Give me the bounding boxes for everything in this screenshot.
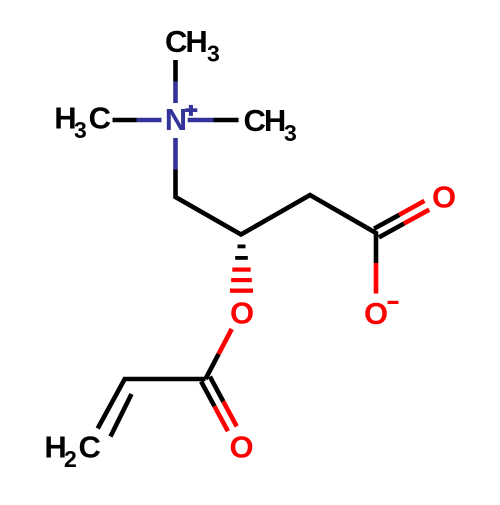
svg-text:O: O: [364, 296, 388, 331]
svg-text:CH: CH: [165, 24, 206, 59]
svg-text:N: N: [165, 102, 187, 137]
svg-text:CH: CH: [244, 103, 285, 138]
svg-text:3: 3: [74, 117, 87, 143]
svg-text:C: C: [89, 100, 111, 135]
svg-text:C: C: [79, 429, 101, 464]
svg-text:3: 3: [284, 120, 297, 146]
svg-text:2: 2: [64, 446, 77, 472]
svg-text:O: O: [230, 296, 254, 331]
svg-text:O: O: [230, 430, 254, 465]
svg-text:O: O: [432, 180, 456, 215]
svg-text:3: 3: [207, 41, 220, 67]
